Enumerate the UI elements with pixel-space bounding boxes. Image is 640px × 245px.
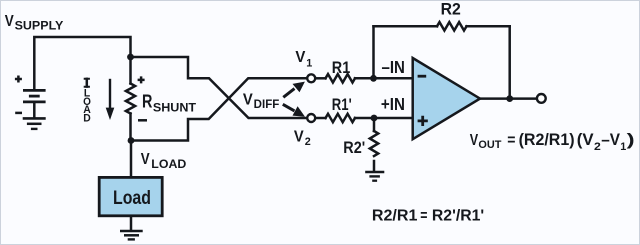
svg-text:V: V (243, 91, 253, 108)
label ILOAD (vertical) (83, 78, 91, 125)
arrow ILOAD (106, 79, 115, 120)
svg-text:–V: –V (601, 131, 620, 149)
svg-text:V: V (294, 128, 305, 145)
wire twisted pair top (+ to V2) (131, 57, 307, 118)
node: shunt bottom junction (128, 137, 135, 144)
wire battery ground stub (33, 102, 36, 117)
wire load ground stub (130, 216, 133, 231)
svg-text:R2'/R1': R2'/R1' (432, 207, 484, 224)
label ratio formula (372, 207, 484, 224)
node: -IN junction (370, 75, 377, 82)
wire V2 to R1' (315, 117, 326, 120)
svg-text:=: = (420, 207, 427, 224)
wire riser to R2 (374, 25, 438, 28)
resistor R1' (326, 114, 355, 122)
label V2 (294, 128, 311, 148)
resistor RSHUNT (126, 84, 135, 114)
label VSUPPLY (5, 13, 64, 32)
node: +IN junction (371, 115, 378, 122)
label RSHUNT (142, 91, 197, 115)
svg-text:=: = (507, 132, 515, 149)
wire feedback riser left (372, 26, 375, 78)
terminal V2 (307, 114, 315, 122)
svg-text:V: V (295, 49, 306, 66)
label VDIFF (243, 91, 279, 111)
svg-text:D: D (83, 112, 91, 124)
resistor R1 (326, 74, 355, 82)
svg-text:R2: R2 (441, 0, 461, 19)
arrow VDIFF upper (283, 82, 305, 98)
wire supply top: battery to shunt (34, 37, 130, 89)
arrow VDIFF lower (283, 104, 305, 116)
wire shunt top lead (129, 57, 132, 84)
svg-text:V: V (470, 132, 479, 149)
svg-text:R1: R1 (332, 58, 350, 77)
op-amp U1 (413, 58, 480, 139)
label V1 (295, 49, 312, 70)
wire R1' to +IN (355, 117, 413, 120)
svg-text:R1': R1' (332, 95, 352, 114)
svg-text:1: 1 (620, 141, 626, 153)
svg-text:V: V (5, 13, 15, 30)
wire shunt bottom lead (129, 114, 132, 141)
battery BT1 (15, 76, 46, 113)
wire R1 to -IN (355, 77, 413, 80)
svg-text:SUPPLY: SUPPLY (15, 19, 64, 32)
wire V1 to R1 (315, 77, 326, 80)
wire load drop (130, 141, 133, 178)
svg-text:V: V (141, 151, 150, 168)
wire R2' to ground (373, 161, 376, 172)
resistor R2' (370, 131, 378, 156)
svg-text:LOAD: LOAD (151, 159, 186, 171)
svg-text:(R2/R1): (R2/R1) (519, 131, 575, 149)
svg-text:Load: Load (113, 187, 151, 209)
label VLOAD (141, 151, 187, 171)
label VOUT formula (470, 131, 635, 153)
terminal VOUT (537, 94, 546, 103)
svg-text:): ) (627, 131, 635, 149)
load box (99, 177, 162, 215)
svg-text:SHUNT: SHUNT (153, 101, 197, 115)
wire twisted pair bottom (- to V1) (131, 78, 306, 140)
svg-text:1: 1 (306, 58, 312, 70)
svg-text:2: 2 (594, 141, 601, 153)
svg-text:R2/R1: R2/R1 (372, 207, 418, 224)
svg-text:(V: (V (577, 131, 594, 149)
svg-text:2: 2 (305, 136, 311, 148)
node: shunt top junction (127, 54, 134, 61)
svg-text:R2': R2' (343, 139, 365, 157)
svg-text:+IN: +IN (381, 94, 405, 114)
resistor R2 (437, 22, 466, 30)
svg-text:R: R (142, 91, 152, 112)
node: output junction (506, 95, 513, 102)
terminal V1 (307, 74, 315, 82)
wire +IN to R2' (373, 118, 376, 131)
wire output riser right (508, 26, 511, 98)
svg-text:–IN: –IN (382, 57, 405, 77)
svg-text:OUT: OUT (478, 139, 501, 151)
label shunt plus (138, 76, 145, 83)
wire R2 to output riser (467, 25, 510, 28)
wire opamp output (479, 97, 537, 100)
ground R2' (365, 172, 384, 181)
label shunt minus (138, 119, 147, 122)
ground load (120, 231, 143, 239)
ground battery (23, 118, 46, 128)
svg-text:DIFF: DIFF (254, 99, 280, 111)
